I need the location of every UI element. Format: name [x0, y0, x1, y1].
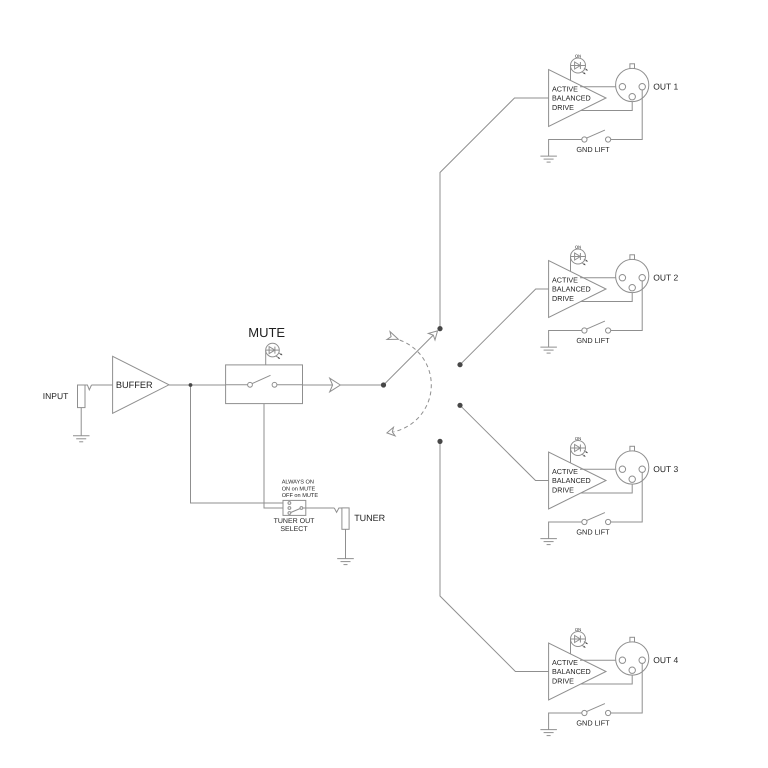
svg-text:BALANCED: BALANCED	[552, 285, 591, 294]
svg-text:SELECT: SELECT	[280, 526, 308, 533]
wire cold output to XLR pin	[581, 100, 633, 111]
wire gnd-lift switch to ground	[549, 713, 582, 730]
svg-text:DRIVE: DRIVE	[552, 294, 574, 303]
svg-text:ON: ON	[575, 53, 581, 58]
svg-text:ON on MUTE: ON on MUTE	[282, 486, 316, 492]
XLR connector J4	[616, 637, 649, 675]
node rotary pole	[381, 382, 386, 387]
svg-text:GND LIFT: GND LIFT	[576, 718, 610, 727]
svg-text:DRIVE: DRIVE	[552, 103, 574, 112]
wire cold output to XLR pin	[581, 482, 633, 493]
svg-text:GND LIFT: GND LIFT	[576, 527, 610, 536]
ground G1	[540, 156, 557, 162]
wire gnd-lift switch to ground	[549, 331, 582, 348]
svg-text:ON: ON	[575, 244, 581, 249]
arrow signal direction after mute	[330, 378, 341, 392]
node rotary contact 4	[437, 439, 442, 444]
svg-text:MUTE: MUTE	[248, 325, 285, 340]
wire mute output to rotary pole	[303, 384, 384, 386]
wire cold output to XLR pin	[581, 673, 633, 684]
svg-text:TUNER: TUNER	[354, 513, 385, 523]
svg-text:ALWAYS ON: ALWAYS ON	[282, 480, 314, 486]
svg-text:DRIVE: DRIVE	[552, 676, 574, 685]
wire input jack sleeve to ground	[80, 408, 82, 436]
wire hot output to XLR pin	[580, 277, 619, 279]
LED D4	[571, 632, 588, 648]
ground G3	[540, 539, 557, 545]
ground G2	[540, 347, 557, 353]
wire LED D2 lead	[570, 257, 572, 272]
input jack J-IN	[78, 385, 92, 408]
wire mute LED lead	[265, 350, 267, 365]
op-amp U4 ACTIVE BALANCED DRIVE	[549, 643, 606, 700]
wire hot output to XLR pin	[580, 468, 619, 470]
node rotary contact 3	[457, 403, 462, 408]
wire rotary contact 1 to OUT1	[440, 98, 549, 329]
svg-text:OUT 4: OUT 4	[653, 655, 678, 665]
wire buffer output to mute	[169, 384, 226, 386]
switch GND LIFT S4	[582, 704, 611, 716]
wire rotary contact 4 to OUT4	[440, 441, 549, 671]
node rotary contact 1	[437, 326, 442, 331]
XLR connector J2	[616, 255, 649, 293]
op-amp U1 ACTIVE BALANCED DRIVE	[549, 70, 606, 127]
ground input	[73, 436, 90, 442]
wire LED D3 lead	[570, 448, 572, 463]
wire XLR shell pin to gnd-lift switch	[611, 663, 643, 713]
wire gnd-lift switch to ground	[549, 522, 582, 539]
LED mute	[266, 343, 283, 358]
svg-text:ON: ON	[575, 627, 581, 632]
svg-text:GND LIFT: GND LIFT	[576, 145, 610, 154]
svg-text:ACTIVE: ACTIVE	[552, 467, 578, 476]
switch TUNER OUT SELECT	[283, 500, 306, 515]
wire buffer junction down to tuner select	[191, 385, 284, 503]
op-amp BUFFER	[113, 356, 169, 413]
svg-text:OUT 1: OUT 1	[653, 81, 678, 91]
node buffer output junction	[189, 383, 193, 387]
wire rotary contact 3 to OUT3	[460, 405, 549, 480]
tuner jack J-TUN	[342, 508, 349, 529]
svg-text:BALANCED: BALANCED	[552, 667, 591, 676]
wire LED D4 lead	[570, 639, 572, 654]
svg-text:GND LIFT: GND LIFT	[576, 336, 610, 345]
svg-text:ON: ON	[575, 436, 581, 441]
XLR connector J3	[616, 446, 649, 484]
wire tuner select to tuner jack	[303, 507, 335, 509]
svg-text:DRIVE: DRIVE	[552, 485, 574, 494]
wire LED D1 lead	[570, 66, 572, 81]
switch mute contacts	[226, 375, 303, 387]
op-amp U2 ACTIVE BALANCED DRIVE	[549, 261, 606, 318]
mute block box	[226, 365, 303, 404]
wire rotary contact 2 to OUT2	[460, 289, 549, 365]
node rotary contact 2	[457, 362, 462, 367]
switch GND LIFT S2	[582, 321, 611, 333]
XLR connector J1	[616, 64, 649, 102]
svg-text:BUFFER: BUFFER	[116, 380, 153, 390]
svg-text:OUT 2: OUT 2	[653, 272, 678, 282]
switch GND LIFT S1	[582, 130, 611, 142]
svg-text:ACTIVE: ACTIVE	[552, 84, 578, 93]
arrow arc end top	[387, 332, 398, 340]
svg-text:OFF on MUTE: OFF on MUTE	[282, 493, 319, 499]
LED D1	[571, 58, 588, 74]
ground G4	[540, 730, 557, 736]
wire cold output to XLR pin	[581, 291, 633, 302]
op-amp U3 ACTIVE BALANCED DRIVE	[549, 452, 606, 509]
svg-text:ACTIVE: ACTIVE	[552, 658, 578, 667]
ground tuner	[337, 559, 354, 565]
wire XLR shell pin to gnd-lift switch	[611, 281, 643, 331]
wire tuner jack sleeve to ground	[345, 529, 347, 558]
switch GND LIFT S3	[582, 513, 611, 525]
rotary switch lever	[384, 332, 437, 385]
svg-text:BALANCED: BALANCED	[552, 476, 591, 485]
svg-text:TUNER OUT: TUNER OUT	[274, 518, 316, 525]
arrow arc end bottom	[387, 427, 395, 436]
wire hot output to XLR pin	[580, 86, 619, 88]
svg-text:OUT 3: OUT 3	[653, 464, 678, 474]
wire XLR shell pin to gnd-lift switch	[611, 90, 643, 140]
wire XLR shell pin to gnd-lift switch	[611, 472, 643, 522]
LED D2	[571, 249, 588, 265]
rotary rotation arc (dashed)	[393, 340, 431, 432]
wire hot output to XLR pin	[580, 659, 619, 661]
svg-text:ACTIVE: ACTIVE	[552, 275, 578, 284]
wire input jack to buffer	[92, 384, 113, 386]
svg-text:BALANCED: BALANCED	[552, 94, 591, 103]
wire mute box bottom to tuner select	[264, 404, 283, 508]
wire gnd-lift switch to ground	[549, 140, 582, 157]
LED D3	[571, 441, 588, 457]
svg-text:INPUT: INPUT	[43, 391, 69, 401]
